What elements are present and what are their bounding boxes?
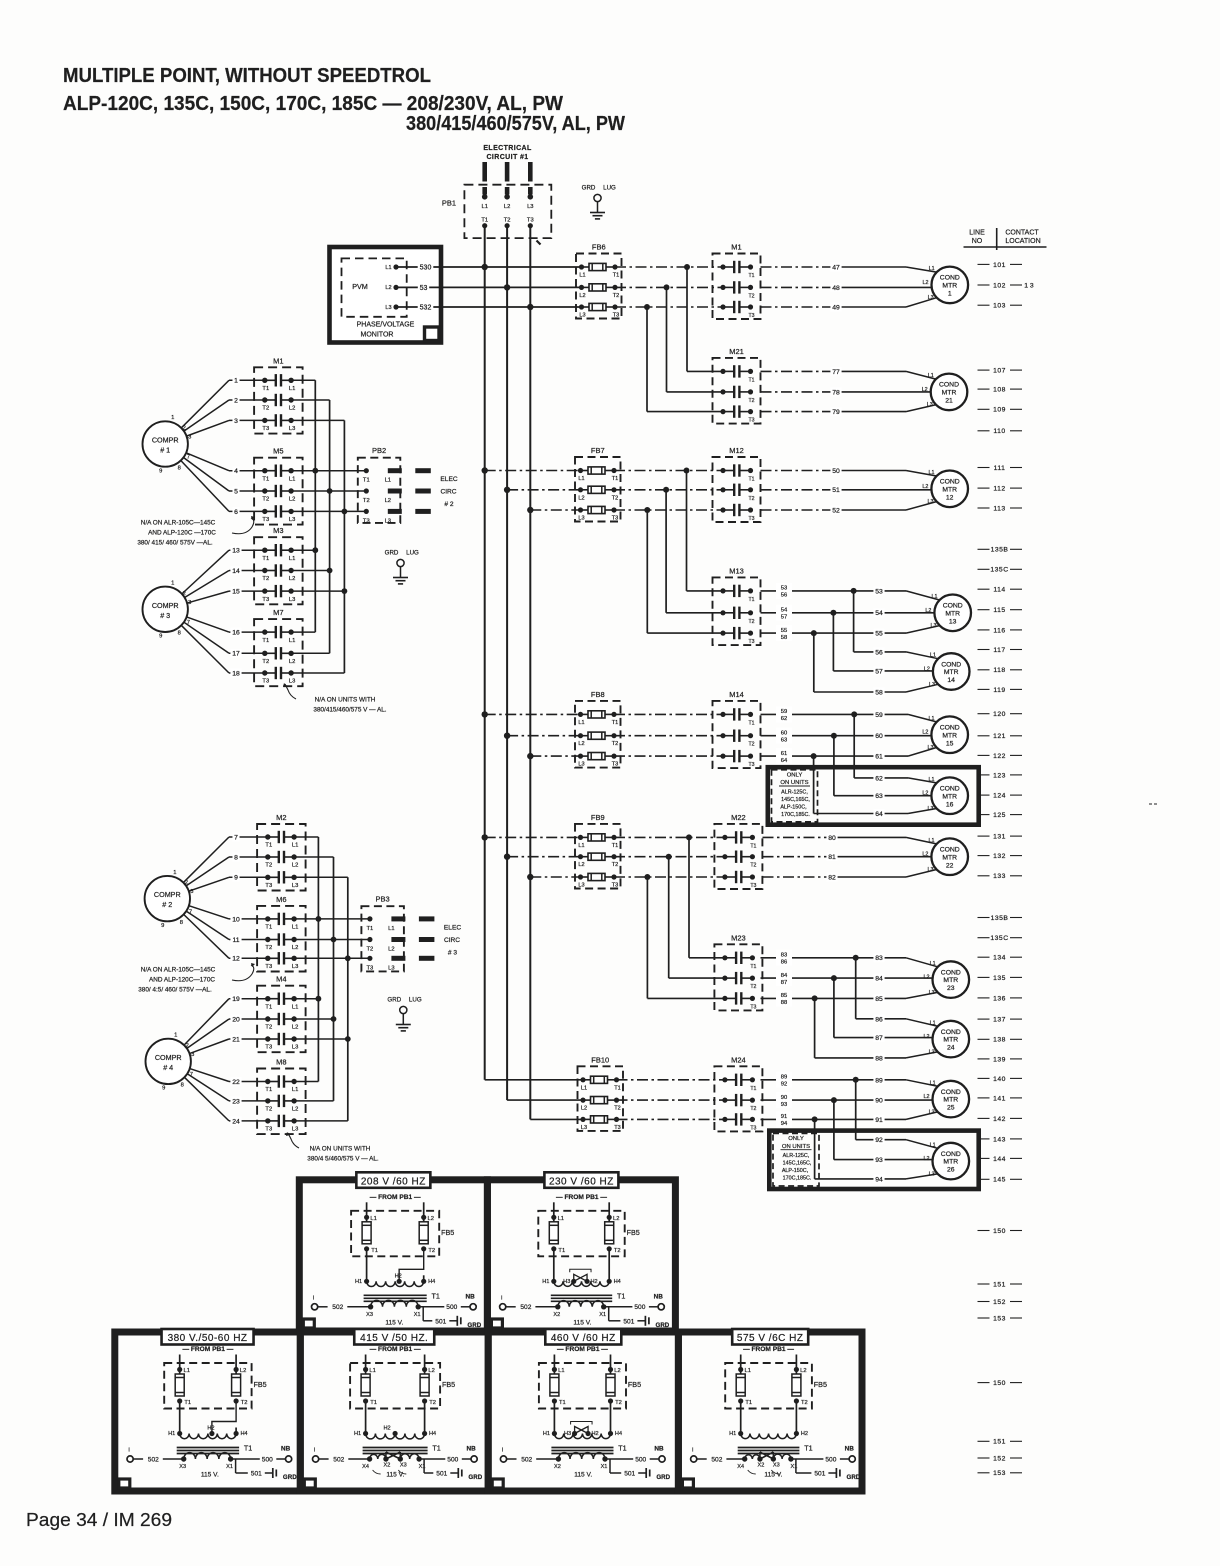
- line number 114 at y=589.2: [978, 587, 1023, 594]
- compressor lead 22: [190, 1069, 229, 1082]
- svg-text:X2: X2: [384, 1463, 391, 1469]
- svg-text:63: 63: [875, 793, 883, 800]
- svg-text:X2: X2: [758, 1463, 765, 1469]
- line number 138 at y=1039.3: [978, 1037, 1023, 1044]
- label FROM PB1: [370, 1346, 421, 1353]
- svg-text:H2: H2: [395, 1273, 402, 1279]
- wire FB9 T1 to M22 L1: [614, 836, 725, 838]
- transformer T1 primary: [543, 1401, 622, 1439]
- junction bus1-wire530: [482, 264, 488, 270]
- svg-text:H1: H1: [542, 1279, 549, 1285]
- condenser motor 12: [931, 471, 968, 508]
- junction tap phase3 to M13: [644, 507, 650, 513]
- wire label 54: [873, 608, 884, 617]
- svg-text:COMPR: COMPR: [155, 1053, 182, 1062]
- svg-text:84: 84: [875, 976, 883, 983]
- wire label 64: [873, 809, 884, 818]
- line number 141 at y=1097.9: [978, 1095, 1023, 1102]
- svg-text:55: 55: [781, 628, 787, 634]
- fuse block FB8: [575, 690, 621, 768]
- label FROM PB1: [557, 1346, 608, 1353]
- svg-text:L2: L2: [578, 741, 584, 747]
- svg-text:GRD: GRD: [582, 185, 596, 192]
- svg-text:L2: L2: [385, 285, 391, 291]
- svg-text:52: 52: [832, 507, 840, 514]
- svg-text:M1: M1: [731, 243, 741, 252]
- junction split 61/64: [811, 753, 817, 759]
- line number 135 at y=977.4: [978, 975, 1023, 982]
- svg-text:T3: T3: [614, 1125, 621, 1131]
- transformer panel 415 V /50 HZ.: [300, 1332, 488, 1491]
- fuse block FB6: [576, 243, 622, 319]
- svg-text:93: 93: [781, 1102, 787, 1108]
- wire FB9 T2 to M22 L2: [614, 856, 725, 858]
- svg-text:COND: COND: [943, 603, 963, 610]
- svg-text:7: 7: [187, 455, 190, 461]
- svg-text:1: 1: [173, 870, 176, 876]
- svg-text:M4: M4: [276, 975, 286, 984]
- svg-text:122: 122: [993, 753, 1006, 760]
- line number 152 at y=1301.5: [978, 1299, 1023, 1306]
- svg-text:H1: H1: [543, 1431, 550, 1437]
- transformer T1 primary: [354, 1401, 436, 1439]
- svg-text:500: 500: [825, 1456, 836, 1463]
- svg-text:M5: M5: [273, 447, 283, 456]
- svg-text:502: 502: [520, 1304, 531, 1311]
- svg-text:T1: T1: [748, 477, 754, 483]
- svg-text:T2: T2: [748, 619, 754, 625]
- svg-text:115 V.: 115 V.: [386, 1472, 404, 1479]
- compressor lead 3: [186, 420, 229, 436]
- wire 48: [761, 286, 837, 288]
- svg-text:380/415/460/575 V — AL.: 380/415/460/575 V — AL.: [313, 707, 386, 714]
- compressor lead 15: [187, 591, 229, 603]
- wire FB10 T3 to M24 L3: [617, 1118, 726, 1120]
- svg-text:L3: L3: [929, 682, 935, 688]
- line number 134 at y=957.2: [978, 955, 1023, 962]
- svg-text:138: 138: [993, 1037, 1006, 1044]
- svg-text:FB10: FB10: [591, 1055, 609, 1064]
- wire bus3 to FB9 L3: [530, 876, 581, 878]
- fuse block FB5: [725, 1355, 827, 1409]
- svg-text:78: 78: [832, 389, 840, 396]
- svg-text:380/415/460/575V, AL, PW: 380/415/460/575V, AL, PW: [406, 113, 625, 135]
- svg-text:NB: NB: [465, 1293, 475, 1300]
- svg-text:L2: L2: [289, 406, 295, 412]
- panel title 230 V /60 HZ: [544, 1172, 618, 1188]
- svg-text:150: 150: [993, 1228, 1006, 1235]
- wire 90 / 93: [761, 1099, 834, 1101]
- svg-text:L3: L3: [578, 516, 584, 522]
- svg-text:M22: M22: [731, 813, 746, 822]
- condenser motor 15: [931, 716, 968, 753]
- wire M1 L2 to vertical: [291, 399, 329, 401]
- svg-text:ALR-125C,: ALR-125C,: [781, 790, 808, 796]
- svg-text:85: 85: [781, 993, 787, 999]
- riser to M23 row1: [688, 837, 690, 957]
- svg-text:T2: T2: [801, 1400, 808, 1406]
- svg-text:L2: L2: [924, 975, 930, 981]
- svg-text:63: 63: [781, 738, 787, 744]
- junction split 91/94: [812, 1116, 818, 1122]
- svg-text:L3: L3: [292, 1127, 298, 1133]
- svg-text:CIRC: CIRC: [444, 937, 460, 944]
- svg-text:1: 1: [171, 581, 174, 587]
- svg-text:H4: H4: [614, 1279, 621, 1285]
- svg-text:# 2: # 2: [444, 501, 453, 508]
- svg-text:M12: M12: [729, 446, 744, 455]
- transformer core: [177, 1444, 253, 1454]
- compressor #4: [155, 1033, 195, 1092]
- line number 125 at y=814.6: [978, 812, 1023, 819]
- svg-text:T3: T3: [262, 426, 269, 432]
- compressor lead 18: [181, 625, 229, 673]
- svg-text:T2: T2: [612, 741, 619, 747]
- junction M5 phase 3: [342, 509, 348, 515]
- svg-text:L3: L3: [292, 964, 298, 970]
- svg-text:133: 133: [993, 873, 1006, 880]
- junction split 53/56: [851, 588, 857, 594]
- svg-text:56: 56: [875, 649, 883, 656]
- panel corner notch: [492, 1479, 503, 1488]
- svg-text:T1: T1: [363, 478, 370, 484]
- svg-text:88: 88: [875, 1055, 883, 1062]
- bus line phase 2 (from PB1 T2): [506, 226, 508, 1100]
- line number 101 at y=264.4: [978, 262, 1023, 269]
- svg-text:L2: L2: [289, 576, 295, 582]
- svg-text:FB8: FB8: [591, 690, 605, 699]
- svg-text:T2: T2: [750, 863, 756, 869]
- svg-text:MONITOR: MONITOR: [361, 331, 394, 338]
- svg-text:114: 114: [993, 587, 1005, 594]
- svg-text:T3: T3: [748, 418, 754, 424]
- svg-text:MTR: MTR: [942, 732, 957, 739]
- line number 135C at y=569.3: [978, 567, 1023, 574]
- compressor lead 21: [190, 1039, 230, 1054]
- svg-text:L3: L3: [292, 1045, 298, 1051]
- wire 84 / 87: [761, 977, 834, 979]
- wire M3 L3 to vertical: [291, 590, 344, 592]
- svg-text:501: 501: [623, 1318, 634, 1325]
- svg-text:NB: NB: [654, 1293, 664, 1300]
- svg-text:15: 15: [946, 740, 954, 747]
- wire FB7 T2 to M12 L2: [614, 489, 723, 491]
- fuse block FB10: [578, 1055, 624, 1131]
- contactor M22: [714, 813, 762, 889]
- svg-text:L1: L1: [385, 265, 391, 271]
- svg-text:L1: L1: [929, 716, 935, 722]
- note N/A bottom cluster: [138, 963, 255, 994]
- svg-text:FB5: FB5: [627, 1228, 640, 1237]
- label FROM PB1: [370, 1194, 421, 1201]
- svg-text:103: 103: [993, 303, 1006, 310]
- svg-text:115 V.: 115 V.: [574, 1472, 592, 1479]
- line number 117 at y=649.5: [978, 647, 1023, 654]
- svg-text:108: 108: [993, 387, 1006, 394]
- ground lug (bottom-left): [387, 997, 421, 1031]
- svg-text:COND: COND: [939, 382, 959, 389]
- transformer panel 460 V /60 HZ: [488, 1332, 678, 1491]
- junction tap phase2 to M21: [664, 284, 670, 290]
- svg-text:208 V /60 HZ: 208 V /60 HZ: [361, 1176, 426, 1187]
- svg-text:1: 1: [234, 378, 238, 385]
- wire M8 L1 to vertical: [294, 1081, 318, 1083]
- contactor M2: [257, 813, 306, 891]
- svg-text:59: 59: [875, 712, 883, 719]
- line number 121 at y=735.8: [978, 733, 1023, 740]
- stray tick below PB1: [537, 241, 541, 245]
- transformer T1 secondary and terminals: [312, 1293, 482, 1329]
- svg-text:I: I: [692, 1448, 694, 1454]
- svg-text:48: 48: [832, 285, 840, 292]
- fuse block FB9: [575, 813, 621, 889]
- note N/A on units with (bottom): [286, 1132, 379, 1163]
- svg-text:380 V./50-60 HZ: 380 V./50-60 HZ: [168, 1333, 248, 1344]
- svg-text:COMPR: COMPR: [152, 601, 179, 610]
- junction bus2 FB7: [504, 487, 510, 493]
- svg-text:111: 111: [994, 465, 1006, 472]
- svg-text:AND ALP-120C —170C: AND ALP-120C —170C: [148, 530, 216, 537]
- wire M7 L1 to vertical: [291, 631, 315, 633]
- svg-text:120: 120: [993, 711, 1006, 718]
- svg-text:L1: L1: [578, 476, 584, 482]
- svg-text:502: 502: [148, 1456, 159, 1463]
- svg-text:T3: T3: [262, 597, 269, 603]
- line number 131 at y=836.1: [978, 834, 1023, 841]
- wire 54 / 57: [761, 612, 834, 614]
- svg-text:H2: H2: [384, 1426, 391, 1432]
- wire M7 L2 to vertical: [291, 652, 329, 654]
- wire label 57: [873, 667, 884, 676]
- svg-text:83: 83: [875, 955, 883, 962]
- svg-text:L1: L1: [579, 273, 585, 279]
- svg-text:L1: L1: [481, 204, 487, 210]
- svg-text:L3: L3: [385, 305, 391, 311]
- svg-text:L3: L3: [927, 402, 933, 408]
- svg-text:L1: L1: [930, 1080, 936, 1086]
- wire 60 / 63: [761, 735, 834, 737]
- wire label 532: [418, 303, 434, 312]
- only-on-units highlight box 2: [769, 1131, 978, 1189]
- svg-text:FB5: FB5: [814, 1380, 827, 1389]
- svg-text:X4: X4: [362, 1464, 369, 1470]
- compressor #2 circle and leads: [145, 876, 190, 921]
- line number 109 at y=409.3: [978, 407, 1023, 414]
- svg-text:L3: L3: [579, 313, 585, 319]
- svg-text:26: 26: [947, 1167, 955, 1174]
- svg-text:T1: T1: [244, 1444, 252, 1453]
- svg-text:COND: COND: [940, 786, 960, 793]
- junction split 84/87: [831, 975, 837, 981]
- contactor M1 (compressor side): [254, 356, 303, 433]
- riser to M13 row2: [665, 490, 667, 613]
- svg-text:T1: T1: [614, 1085, 621, 1091]
- svg-text:NB: NB: [845, 1446, 855, 1453]
- line number 115 at y=609.7: [978, 607, 1023, 614]
- wire label 61: [873, 752, 884, 761]
- svg-text:L1: L1: [292, 1004, 298, 1010]
- wire FB10 T1 to M24 L1: [617, 1079, 726, 1081]
- svg-text:L1: L1: [289, 476, 295, 482]
- svg-text:61: 61: [875, 754, 883, 761]
- svg-text:86: 86: [875, 1016, 883, 1023]
- wire 77: [761, 370, 837, 372]
- svg-text:I: I: [313, 1295, 315, 1301]
- condenser motor 16: [931, 777, 968, 814]
- svg-text:132: 132: [993, 853, 1006, 860]
- svg-text:141: 141: [993, 1095, 1006, 1102]
- svg-text:L3: L3: [289, 517, 295, 523]
- svg-text:380/ 415/ 460/ 575V —AL.: 380/ 415/ 460/ 575V —AL.: [137, 540, 213, 547]
- svg-text:L2: L2: [578, 495, 584, 501]
- svg-text:150: 150: [993, 1380, 1006, 1387]
- svg-text:L1: L1: [930, 961, 936, 967]
- svg-text:COND: COND: [940, 479, 960, 486]
- svg-text:55: 55: [875, 631, 883, 638]
- svg-text:79: 79: [832, 409, 840, 416]
- svg-text:9: 9: [234, 875, 238, 882]
- wire FB6 T2 to M1 L2: [615, 286, 723, 288]
- svg-text:25: 25: [947, 1105, 955, 1112]
- wire label 89: [873, 1075, 884, 1084]
- phase vertical A (bottom cluster): [317, 837, 319, 1082]
- svg-text:L3: L3: [929, 1109, 935, 1115]
- wire label 52: [830, 506, 841, 515]
- wire bus2 to FB7 L2: [507, 489, 581, 491]
- svg-text:H2: H2: [207, 1426, 214, 1432]
- svg-text:153: 153: [993, 1470, 1006, 1477]
- contactor M5: [254, 447, 303, 525]
- svg-text:T2: T2: [363, 498, 370, 504]
- line number 153 at y=1472.8: [978, 1470, 1023, 1477]
- line number 107 at y=370.1: [978, 368, 1023, 375]
- panel title 208 V /60 HZ: [356, 1172, 430, 1188]
- junction bus2-wire531: [504, 284, 510, 290]
- svg-text:AND ALP-120C—170C: AND ALP-120C—170C: [149, 977, 215, 984]
- svg-text:62: 62: [781, 716, 787, 722]
- compressor #1: [152, 415, 192, 474]
- svg-text:500: 500: [446, 1304, 457, 1311]
- svg-text:13: 13: [949, 618, 957, 625]
- svg-text:T2: T2: [241, 1400, 248, 1406]
- svg-text:L2: L2: [388, 947, 394, 953]
- svg-text:— FROM PB1 —: — FROM PB1 —: [182, 1346, 233, 1353]
- svg-text:COMPR: COMPR: [152, 436, 179, 445]
- svg-text:I: I: [128, 1448, 130, 1454]
- riser to M13 row1: [686, 471, 688, 591]
- svg-text:115 V.: 115 V.: [764, 1472, 782, 1479]
- svg-text:L2: L2: [579, 293, 585, 299]
- svg-text:T1: T1: [367, 926, 374, 932]
- svg-text:135B: 135B: [991, 915, 1009, 922]
- svg-text:T1: T1: [262, 638, 269, 644]
- svg-text:L2: L2: [922, 730, 928, 736]
- svg-text:64: 64: [781, 758, 788, 764]
- wire bus1 to FB8 L1: [485, 713, 582, 715]
- svg-text:152: 152: [993, 1299, 1006, 1306]
- svg-text:3: 3: [188, 435, 191, 441]
- svg-text:8: 8: [234, 854, 238, 861]
- wire M6 L3 to PB3 T3: [294, 957, 370, 959]
- svg-text:135B: 135B: [991, 547, 1009, 554]
- svg-text:T1: T1: [265, 925, 272, 931]
- condenser motor 21: [931, 374, 968, 411]
- svg-text:91: 91: [875, 1117, 883, 1124]
- drop wire to 93: [833, 1100, 835, 1160]
- svg-text:3: 3: [188, 600, 191, 606]
- svg-text:500: 500: [262, 1456, 273, 1463]
- svg-text:24: 24: [947, 1045, 955, 1052]
- svg-text:L2: L2: [292, 1107, 298, 1113]
- line number 143 at y=1138.9: [978, 1136, 1023, 1143]
- svg-text:I: I: [314, 1448, 316, 1454]
- transformer T1 primary: [542, 1249, 621, 1287]
- svg-text:ELECTRICAL: ELECTRICAL: [483, 145, 532, 152]
- compressor lead 12: [184, 914, 229, 958]
- contactor M13: [713, 566, 761, 645]
- svg-text:MULTIPLE POINT, WITHOUT SPEEDT: MULTIPLE POINT, WITHOUT SPEEDTROL: [63, 65, 431, 87]
- phase vertical C (top cluster): [343, 420, 345, 673]
- svg-text:170C,185C.: 170C,185C.: [783, 1176, 812, 1182]
- transformer core: [364, 1291, 440, 1301]
- svg-text:L3: L3: [527, 204, 533, 210]
- svg-text:X1: X1: [414, 1312, 421, 1318]
- svg-text:380/ 4:5/ 460/ 575V —AL.: 380/ 4:5/ 460/ 575V —AL.: [138, 987, 212, 994]
- svg-text:H1: H1: [355, 1279, 362, 1285]
- svg-text:PHASE/VOLTAGE: PHASE/VOLTAGE: [357, 321, 415, 328]
- svg-text:9: 9: [161, 923, 164, 929]
- wire M5 L1 to PB2 T1: [291, 470, 366, 472]
- panel title 575 V /6C HZ: [732, 1329, 808, 1345]
- svg-text:N/A ON UNITS WITH: N/A ON UNITS WITH: [315, 697, 376, 704]
- svg-text:151: 151: [993, 1281, 1006, 1288]
- svg-text:T1: T1: [750, 964, 756, 970]
- label FROM PB1: [743, 1346, 794, 1353]
- svg-text:9: 9: [159, 468, 162, 474]
- junction M3 phase 2: [327, 568, 333, 574]
- svg-text:139: 139: [993, 1056, 1006, 1063]
- wire label 47: [830, 263, 841, 272]
- svg-text:62: 62: [875, 775, 883, 782]
- svg-text:L3: L3: [289, 597, 295, 603]
- svg-text:T3: T3: [527, 218, 534, 224]
- svg-text:M3: M3: [273, 526, 283, 535]
- svg-text:92: 92: [781, 1082, 787, 1088]
- svg-text:81: 81: [828, 854, 836, 861]
- compressor lead 9: [189, 877, 229, 891]
- drop wire to 86: [855, 958, 857, 1019]
- svg-text:MTR: MTR: [942, 486, 957, 493]
- transformer T1 primary: [729, 1401, 808, 1439]
- svg-text:M21: M21: [729, 347, 744, 356]
- svg-text:109: 109: [993, 407, 1006, 414]
- svg-text:L2: L2: [292, 945, 298, 951]
- svg-text:119: 119: [993, 687, 1005, 694]
- svg-text:X3: X3: [366, 1312, 373, 1318]
- junction split 89/92: [853, 1077, 859, 1083]
- svg-text:ALP-150C,: ALP-150C,: [782, 1168, 809, 1174]
- svg-text:87: 87: [781, 980, 787, 986]
- svg-text:L3: L3: [928, 745, 934, 751]
- svg-text:T2: T2: [748, 293, 754, 299]
- compressor #1 circle and leads: [143, 421, 188, 466]
- svg-text:L3: L3: [928, 499, 934, 505]
- svg-text:58: 58: [875, 689, 883, 696]
- wire 47: [761, 266, 837, 268]
- condenser motor 13: [934, 595, 971, 632]
- condenser motor 25: [933, 1081, 970, 1118]
- wire 59 / 62: [761, 713, 855, 715]
